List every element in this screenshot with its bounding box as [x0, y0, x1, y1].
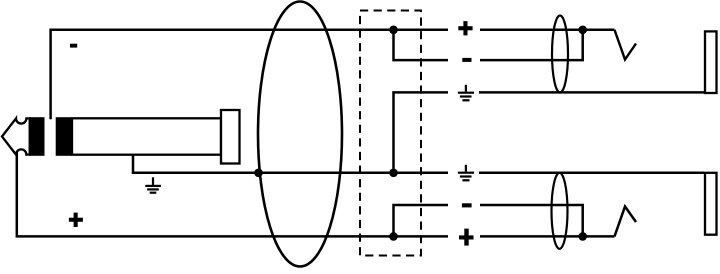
label - (top row)	[462, 58, 471, 62]
junction dot bottom (tip node)	[389, 232, 398, 241]
wire: top minus row right	[480, 30, 583, 60]
TRS plug tip	[2, 118, 30, 154]
tip contact top jack (spring)	[615, 30, 637, 60]
tip contact bottom jack (spring)	[615, 207, 637, 237]
cable ellipse	[258, 2, 342, 267]
plug body (sleeve)	[72, 118, 221, 154]
junction dot bottom jack	[578, 232, 587, 241]
shield ellipse top jack	[552, 16, 568, 93]
wire: bottom minus row right	[480, 205, 583, 236]
shield ellipse bottom jack	[552, 173, 568, 249]
sleeve contact top jack	[705, 31, 717, 93]
wire: bottom ground row right	[479, 172, 704, 175]
label + (top row)	[458, 21, 472, 35]
wire: bottom plus row right	[480, 235, 615, 238]
label + (bottom group)	[459, 229, 474, 246]
label - (left, ring)	[70, 44, 77, 48]
junction dot middle (sleeve node)	[389, 169, 398, 178]
ground symbol (bottom group)	[458, 165, 474, 182]
wire: top ground row right	[479, 91, 704, 94]
junction dot top (ring node)	[389, 26, 398, 35]
wire: top plus row right	[480, 29, 615, 32]
ground symbol at plug sleeve	[145, 177, 161, 194]
label - (bottom group)	[462, 203, 472, 207]
junction box (dashed)	[360, 11, 421, 256]
plug insulator band 2	[56, 117, 72, 156]
wire: plug sleeve step to ground row	[133, 155, 448, 173]
junction dot on cable (sleeve)	[254, 169, 263, 178]
plug end cap	[221, 110, 240, 164]
junction dot top jack	[578, 26, 587, 35]
sleeve contact bottom jack	[705, 173, 717, 235]
plug insulator band 1	[30, 117, 45, 156]
wire: plug tip to bottom plus row	[17, 152, 448, 236]
ground symbol (top group)	[458, 85, 474, 102]
wire: top ground branch	[394, 92, 449, 172]
label + (left, tip)	[69, 213, 83, 227]
wire: bottom minus branch	[394, 205, 449, 236]
wire: plug ring to top minus row	[51, 30, 448, 119]
wire: top minus branch	[394, 30, 449, 60]
